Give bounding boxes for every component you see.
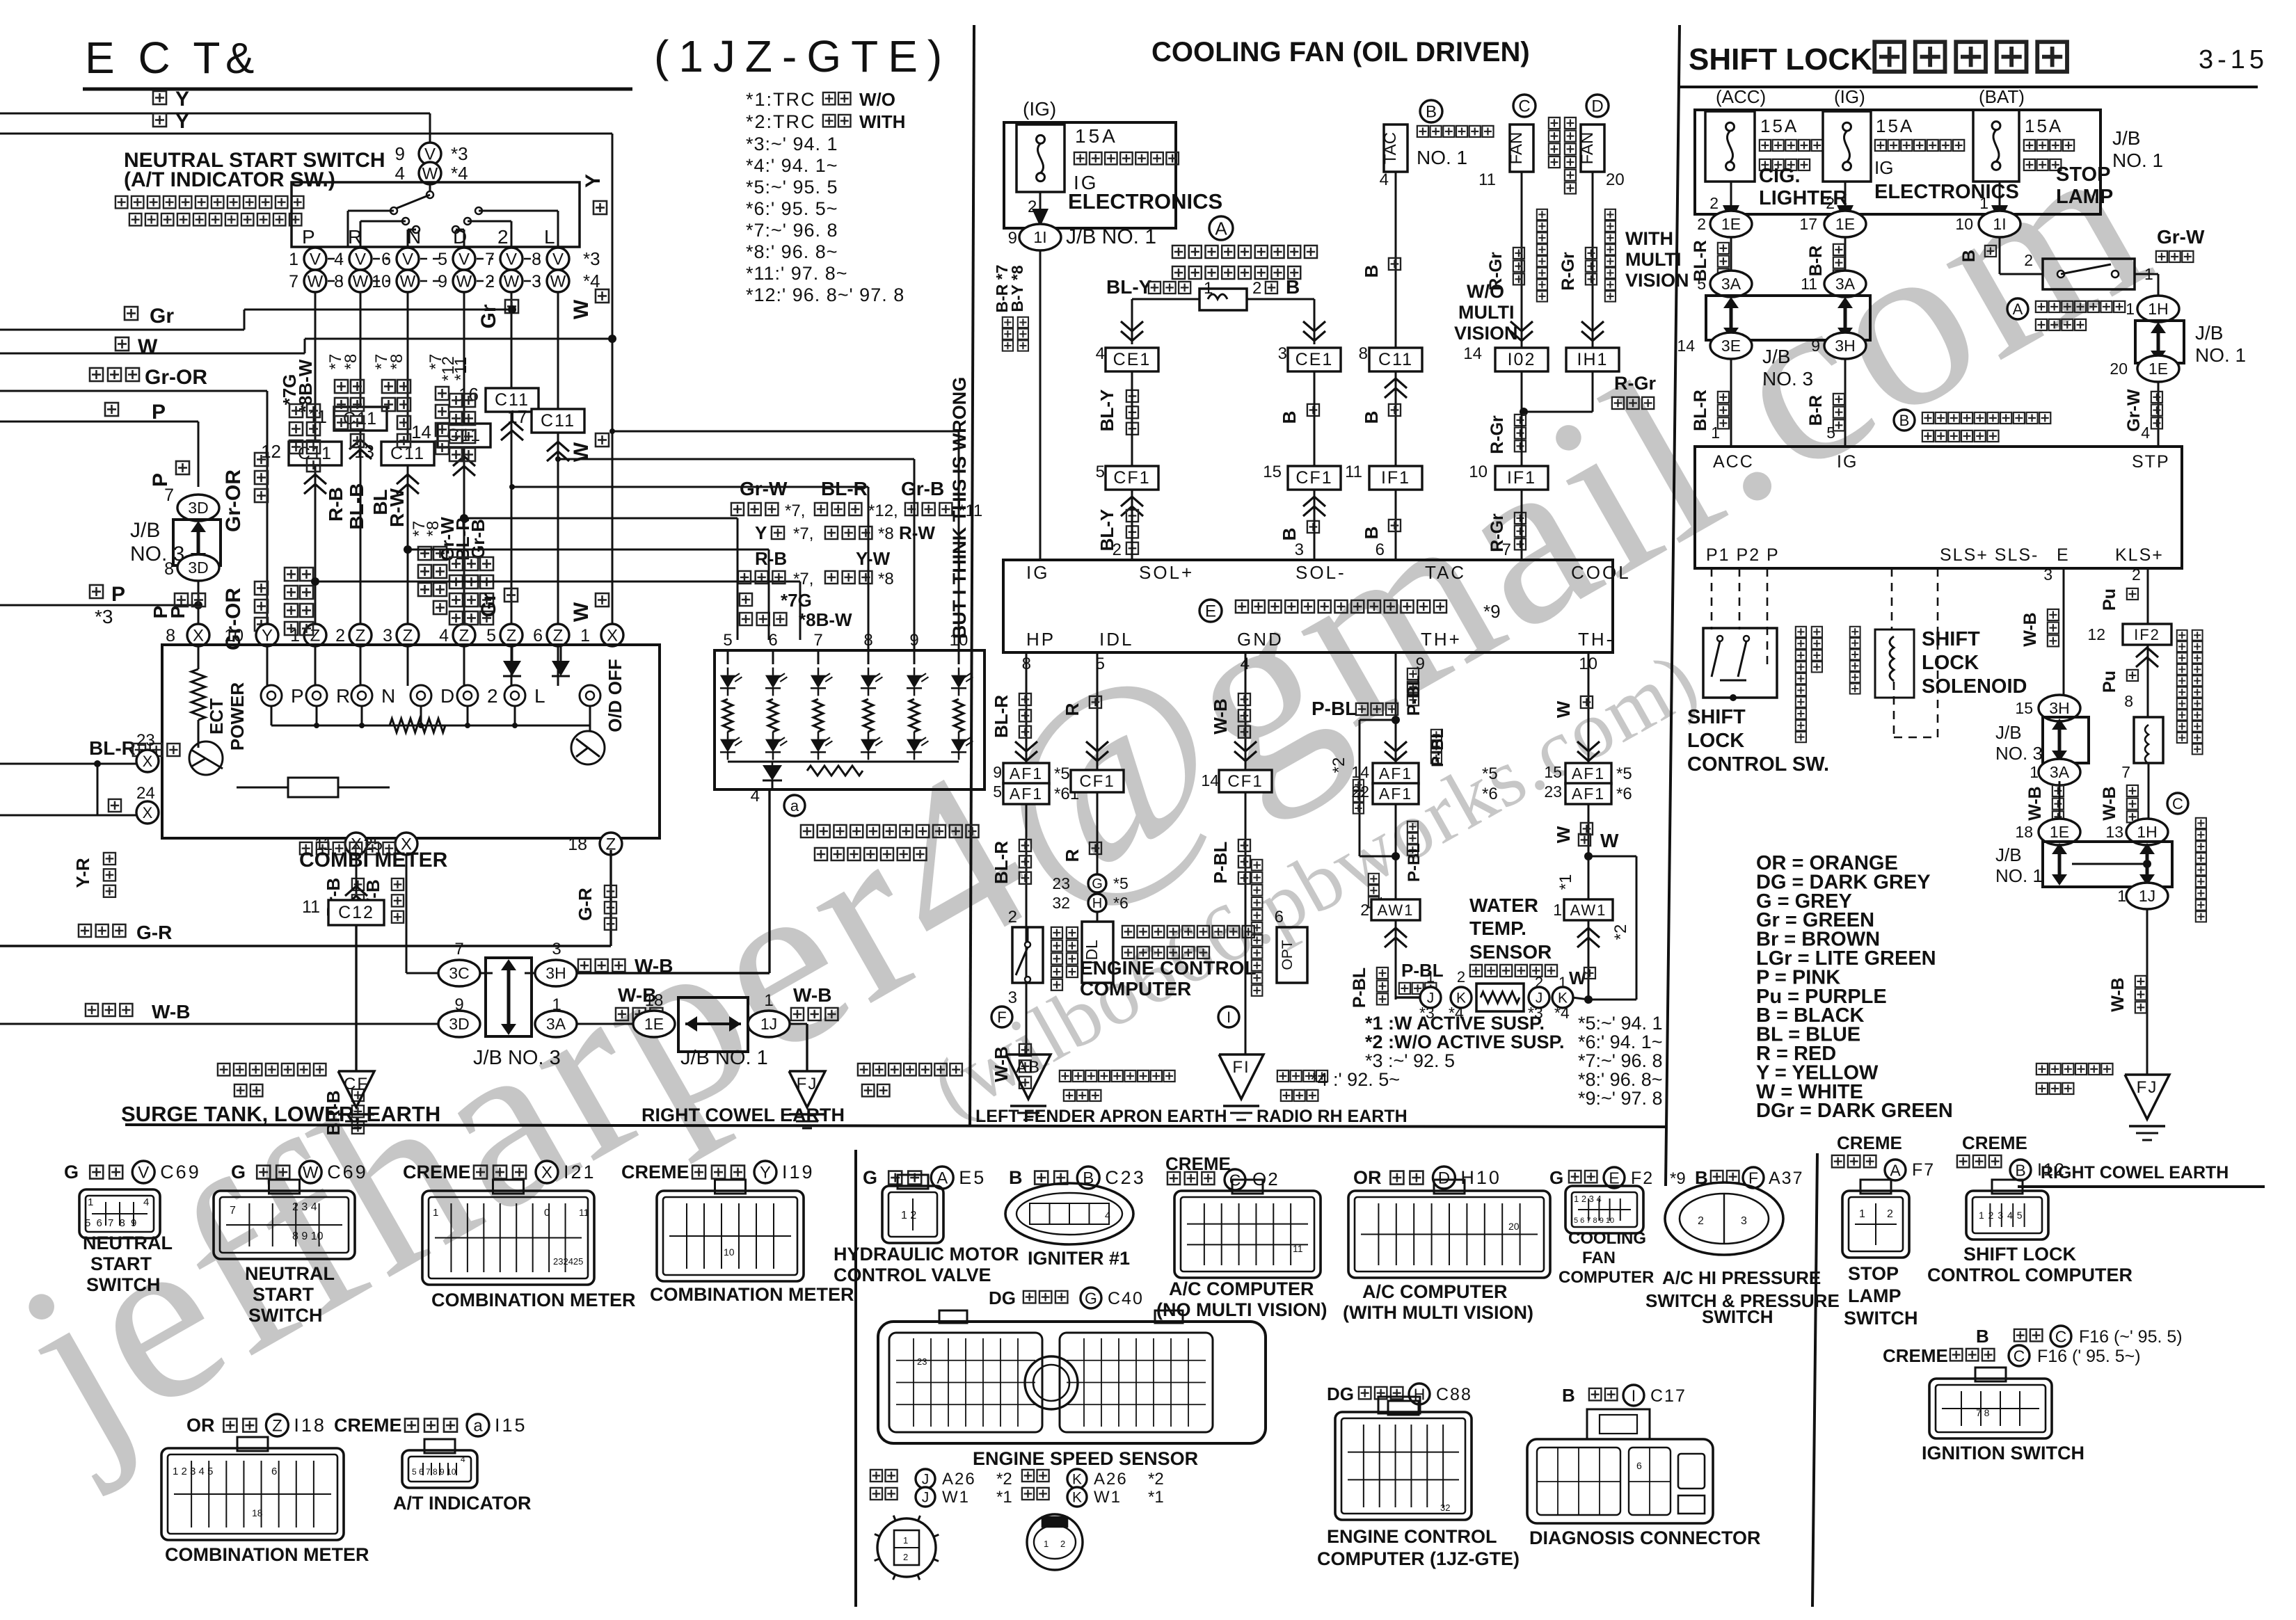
svg-text:C17: C17 (1650, 1386, 1687, 1406)
cooling fan computer box (1003, 560, 1613, 652)
svg-text:3C: 3C (449, 964, 469, 982)
svg-text:BL-R: BL-R (1691, 390, 1710, 431)
svg-text:4: 4 (395, 163, 405, 184)
svg-text:*11: *11 (452, 357, 470, 380)
svg-text:AW1: AW1 (1378, 901, 1414, 919)
svg-text:20: 20 (1508, 1221, 1520, 1232)
svg-text:F7: F7 (1912, 1160, 1935, 1180)
svg-text:SWITCH: SWITCH (248, 1305, 322, 1326)
svg-text:Y-R: Y-R (72, 858, 93, 888)
svg-text:CF: CF (344, 1075, 369, 1093)
svg-text:18: 18 (645, 991, 664, 1010)
wires down (1730, 238, 1732, 284)
svg-text:IG: IG (1837, 452, 1858, 472)
svg-text:CREME: CREME (1883, 1345, 1948, 1366)
svg-text:BL-R: BL-R (821, 478, 868, 499)
svg-text:8: 8 (166, 626, 175, 645)
svg-text:11: 11 (1801, 275, 1817, 293)
svg-text:2: 2 (1887, 1208, 1893, 1220)
svg-text:C69: C69 (327, 1162, 368, 1182)
svg-text:P-BL: P-BL (1312, 698, 1357, 719)
svg-text:WITH: WITH (1625, 228, 1673, 249)
svg-text:2: 2 (1709, 194, 1719, 212)
svg-text:B: B (1562, 1385, 1575, 1406)
svg-text:J/B: J/B (1762, 346, 1790, 367)
svg-text:IF1: IF1 (1507, 468, 1536, 488)
svg-text:V: V (402, 250, 413, 269)
svg-text:20: 20 (2110, 360, 2128, 378)
svg-text:*1: *1 (1148, 1488, 1164, 1507)
svg-text:1: 1 (1553, 901, 1562, 919)
water temp sensor (1396, 996, 1421, 998)
svg-text:Gr-W: Gr-W (2157, 226, 2205, 248)
svg-text:14: 14 (411, 422, 431, 442)
TH+ branch *2 (1392, 716, 1400, 724)
svg-text:J/B: J/B (1995, 722, 2022, 743)
svg-text:9: 9 (993, 763, 1002, 781)
svg-text:IF1: IF1 (1381, 468, 1410, 488)
svg-text:E C T: E C T (85, 33, 225, 83)
svg-text:(WITH MULTI VISION): (WITH MULTI VISION) (1343, 1302, 1533, 1323)
svg-text:A: A (2013, 300, 2023, 318)
svg-text:CE1: CE1 (1296, 350, 1334, 369)
svg-text:*8: *8 (878, 570, 894, 588)
svg-text:D: D (1438, 1169, 1450, 1188)
ignition switch jp label (2177, 630, 2187, 743)
svg-text:6: 6 (768, 631, 777, 650)
svg-text:F16 (~' 95. 5): F16 (~' 95. 5) (2079, 1327, 2183, 1347)
svg-text:*8:' 96. 8~: *8:' 96. 8~ (1578, 1069, 1663, 1090)
svg-text:CF1: CF1 (1079, 772, 1115, 791)
svg-text:*4 :' 92. 5~: *4 :' 92. 5~ (1310, 1069, 1400, 1090)
svg-text:3A: 3A (2050, 763, 2070, 781)
svg-text:2: 2 (1113, 540, 1122, 559)
svg-text:E: E (1609, 1169, 1619, 1187)
svg-text:32: 32 (1052, 894, 1070, 912)
svg-text:LEFT FENDER APRON EARTH: LEFT FENDER APRON EARTH (975, 1107, 1227, 1126)
fuse BAT stop lamp (1973, 110, 2019, 182)
bus W (115, 337, 129, 351)
svg-text:*2: *2 (1148, 1470, 1164, 1489)
svg-text:AW1: AW1 (1570, 901, 1607, 919)
svg-text:*6: *6 (1113, 894, 1129, 912)
svg-text:RIGHT COWEL EARTH: RIGHT COWEL EARTH (2041, 1163, 2229, 1182)
wires to computer (1730, 360, 1732, 447)
svg-text:COMBINATION METER: COMBINATION METER (650, 1284, 854, 1305)
svg-text:NO. 1: NO. 1 (1995, 865, 2043, 886)
svg-text:8: 8 (863, 631, 872, 650)
svg-text:1: 1 (1979, 194, 1988, 212)
svg-text:CREME: CREME (403, 1162, 471, 1182)
svg-text:E: E (2057, 545, 2068, 565)
row2 AT indicator connector (402, 1450, 477, 1488)
svg-text:*7:~' 96. 8: *7:~' 96. 8 (1578, 1050, 1663, 1071)
svg-text:MULTI: MULTI (1458, 302, 1514, 323)
wire Y down to switch (429, 113, 431, 143)
svg-text:Pu: Pu (2100, 588, 2119, 611)
svg-text:2: 2 (1252, 279, 1261, 298)
svg-text:*3: *3 (95, 606, 113, 627)
svg-text:6: 6 (533, 626, 543, 645)
svg-text:R: R (1062, 849, 1083, 862)
J/B No.1 (577, 1023, 633, 1025)
svg-text:A: A (1890, 1161, 1901, 1179)
svg-text:W-B: W-B (2100, 786, 2119, 820)
fuse IG electronics (1823, 111, 1871, 182)
svg-text:11: 11 (579, 1207, 589, 1218)
svg-text:4: 4 (2141, 424, 2150, 442)
svg-text:OPT: OPT (1279, 940, 1296, 970)
row2 combination meter connector (161, 1448, 344, 1540)
svg-text:7: 7 (289, 272, 298, 291)
svg-text:OR: OR (1353, 1167, 1382, 1188)
svg-text:R: R (336, 685, 350, 707)
svg-text:SWITCH: SWITCH (1844, 1308, 1918, 1329)
A/T indicator lamp box (715, 650, 984, 789)
svg-text:A37: A37 (1769, 1169, 1803, 1188)
pin 24 X (109, 799, 121, 812)
svg-text:*2: *2 (996, 1470, 1012, 1489)
svg-text:1: 1 (903, 1535, 908, 1546)
svg-text:Y: Y (760, 1164, 771, 1182)
svg-text:R-W: R-W (899, 522, 935, 543)
svg-text:SWITCH: SWITCH (86, 1274, 160, 1295)
svg-text:4: 4 (1105, 1210, 1110, 1221)
svg-text:*1: *1 (996, 1488, 1012, 1507)
J/B No.3 box right (1706, 296, 1870, 340)
svg-text:1I: 1I (1993, 215, 2006, 233)
svg-text:VISION: VISION (1625, 270, 1689, 291)
svg-text:SHIFT LOCK: SHIFT LOCK (1963, 1244, 2076, 1265)
FAN C and D (1513, 95, 1536, 117)
svg-text:15A: 15A (1876, 115, 1914, 136)
svg-text:*4: *4 (1554, 1004, 1570, 1022)
svg-text:CE1: CE1 (1113, 350, 1151, 369)
svg-text:8: 8 (2124, 692, 2133, 710)
svg-text:8: 8 (1359, 344, 1368, 363)
svg-text:3E: 3E (1721, 337, 1741, 355)
svg-text:*4: *4 (451, 163, 468, 184)
svg-text:G: G (1549, 1167, 1563, 1188)
svg-text:3D: 3D (188, 559, 208, 577)
svg-text:AB: AB (1016, 1058, 1041, 1077)
svg-text:SHIFT LOCK: SHIFT LOCK (1689, 42, 1872, 77)
svg-text:(BAT): (BAT) (1979, 86, 2025, 107)
svg-text:3-15: 3-15 (2199, 45, 2268, 74)
svg-text:*2 :W/O ACTIVE SUSP.: *2 :W/O ACTIVE SUSP. (1365, 1032, 1565, 1052)
svg-text:Gr-B: Gr-B (468, 519, 488, 559)
svg-text:1: 1 (2126, 300, 2135, 318)
svg-text:2: 2 (497, 226, 509, 248)
shift lock solenoid (1891, 568, 1893, 629)
svg-text:Gr-OR: Gr-OR (222, 470, 245, 532)
sensor sub labels (870, 1470, 898, 1482)
svg-text:L: L (534, 685, 545, 707)
svg-text:STOP: STOP (1848, 1263, 1899, 1284)
svg-text:18: 18 (568, 835, 587, 854)
lamp box label (801, 825, 979, 837)
svg-text:1: 1 (1426, 968, 1435, 986)
fuse ACC cig lighter (1705, 111, 1755, 182)
svg-text:IG: IG (1874, 157, 1893, 178)
svg-text:C40: C40 (1108, 1289, 1144, 1308)
svg-text:H: H (1092, 896, 1102, 911)
svg-text:5: 5 (1697, 275, 1706, 293)
svg-text:AF1: AF1 (1572, 785, 1605, 803)
svg-text:X: X (541, 1164, 552, 1182)
svg-text:P1 P2 P: P1 P2 P (1706, 545, 1780, 565)
svg-text:AF1: AF1 (1572, 764, 1605, 783)
svg-text:FAN: FAN (1507, 132, 1526, 165)
svg-text:R: R (1062, 703, 1083, 716)
svg-text:Z: Z (459, 627, 470, 645)
svg-text:23: 23 (917, 1356, 927, 1367)
svg-text:22: 22 (1351, 783, 1369, 801)
svg-text:*9: *9 (1670, 1169, 1686, 1188)
engine control computer label (1122, 926, 1254, 938)
svg-text:*7G: *7G (781, 590, 812, 611)
svg-text:COMPUTER: COMPUTER (1080, 978, 1191, 1000)
svg-text:10: 10 (1469, 463, 1488, 481)
svg-text:J/B: J/B (1995, 844, 2022, 865)
svg-text:2: 2 (1060, 1539, 1065, 1549)
svg-text:5: 5 (1826, 424, 1835, 442)
lamp box resistors (723, 699, 733, 732)
svg-text:NO. 1: NO. 1 (2195, 344, 2246, 366)
svg-text:O/D OFF: O/D OFF (605, 659, 625, 732)
dashed wires to control sw (1711, 568, 1713, 629)
svg-text:C: C (1518, 97, 1530, 116)
svg-text:4: 4 (751, 787, 760, 805)
svg-text:CONTROL COMPUTER: CONTROL COMPUTER (1927, 1265, 2132, 1285)
W-B bus (86, 1004, 132, 1016)
svg-text:*12:' 96. 8~' 97. 8: *12:' 96. 8~' 97. 8 (746, 284, 904, 305)
svg-text:W: W (1553, 826, 1574, 843)
svg-text:AF1: AF1 (1379, 785, 1412, 803)
svg-text:BL-B: BL-B (346, 483, 367, 530)
svg-text:NEUTRAL: NEUTRAL (83, 1233, 173, 1253)
radio rh earth (1219, 1054, 1263, 1099)
svg-text:R-B: R-B (755, 548, 787, 569)
svg-text:2: 2 (1457, 968, 1465, 986)
bottom section divider left (854, 1150, 857, 1607)
combi meter box (162, 645, 660, 838)
svg-text:LAMP: LAMP (2056, 186, 2113, 208)
svg-text:C69: C69 (160, 1162, 201, 1182)
title underline (83, 88, 632, 91)
svg-text:TAC: TAC (1425, 562, 1466, 583)
svg-text:W: W (456, 273, 472, 291)
svg-text:*8: *8 (878, 524, 894, 543)
svg-text:SHIFT: SHIFT (1687, 706, 1746, 728)
svg-text:LAMP: LAMP (1848, 1285, 1902, 1306)
svg-text:J/B NO. 1: J/B NO. 1 (680, 1047, 768, 1069)
svg-text:Z: Z (403, 627, 413, 645)
svg-text:I19: I19 (782, 1162, 815, 1182)
svg-text:4: 4 (143, 1196, 149, 1208)
svg-text:3: 3 (1741, 1215, 1747, 1227)
svg-text:1 2 3 4 5: 1 2 3 4 5 (173, 1466, 213, 1477)
svg-text:P: P (149, 473, 172, 487)
svg-text:W: W (1553, 700, 1574, 718)
stop lamp switch label (2007, 298, 2028, 319)
svg-text:K: K (1072, 1490, 1082, 1506)
svg-text:*7,: *7, (785, 502, 805, 520)
svg-text:1 2 3 4 5: 1 2 3 4 5 (1979, 1210, 2023, 1221)
svg-text:CONTROL SW.: CONTROL SW. (1687, 753, 1829, 776)
svg-text:*5:~' 94. 1: *5:~' 94. 1 (1578, 1013, 1663, 1034)
engine control computer connector (1335, 1412, 1472, 1520)
svg-text:W-B: W-B (2108, 977, 2128, 1011)
svg-text:R-Gr: R-Gr (1558, 252, 1578, 291)
svg-text:RADIO RH EARTH: RADIO RH EARTH (1257, 1107, 1408, 1126)
svg-text:W/O: W/O (1467, 281, 1504, 302)
svg-text:W: W (1600, 830, 1619, 851)
svg-text:P: P (167, 606, 189, 619)
svg-text:1: 1 (580, 626, 590, 645)
svg-text:4: 4 (461, 1454, 465, 1464)
svg-text:*1:TRC: *1:TRC (746, 89, 816, 110)
svg-text:5 6 7 8 9: 5 6 7 8 9 (85, 1217, 138, 1229)
svg-text:*9: *9 (1483, 601, 1501, 622)
svg-text:*5: *5 (1482, 764, 1498, 783)
svg-text:W: W (308, 273, 324, 291)
svg-text:*7,: *7, (793, 524, 813, 543)
svg-text:9: 9 (1008, 229, 1017, 248)
svg-text:W: W (504, 273, 520, 291)
svg-text:9: 9 (909, 631, 918, 650)
svg-text:HYDRAULIC MOTOR: HYDRAULIC MOTOR (834, 1244, 1019, 1265)
svg-text:*3: *3 (583, 248, 600, 269)
svg-text:B: B (1279, 528, 1300, 541)
svg-text:*8B-W: *8B-W (799, 609, 852, 630)
svg-text:B: B (1899, 412, 1910, 429)
connector AC computer no multivision (1174, 1191, 1321, 1278)
J/B No.1 fuse block box (1695, 110, 2100, 214)
svg-text:D: D (1591, 97, 1603, 116)
svg-text:TAC: TAC (1381, 132, 1400, 164)
svg-text:A: A (1215, 218, 1227, 239)
svg-text:15A: 15A (1760, 115, 1799, 136)
section divider ECT|COOLING FAN (970, 25, 974, 1127)
combi diodes (503, 661, 521, 676)
svg-text:KLS+: KLS+ (2115, 545, 2164, 565)
svg-text:CF1: CF1 (1227, 772, 1263, 791)
J/B No.1 box right small (2135, 321, 2184, 363)
svg-text:2: 2 (1697, 215, 1706, 233)
shift lock computer label (1894, 410, 1915, 431)
svg-text:HP: HP (1026, 629, 1055, 650)
svg-text:2: 2 (487, 685, 498, 707)
svg-text:W: W (570, 299, 593, 319)
svg-text:*5:~' 95. 5: *5:~' 95. 5 (746, 177, 838, 198)
svg-text:COOL: COOL (1571, 562, 1631, 583)
svg-text:*3 :~' 92. 5: *3 :~' 92. 5 (1365, 1050, 1455, 1071)
svg-text:23: 23 (136, 731, 155, 750)
svg-text:CREME: CREME (1962, 1132, 2027, 1153)
TH+ column (1395, 652, 1397, 1000)
svg-text:B: B (2015, 1161, 2025, 1179)
svg-text:*11:' 97. 8~: *11:' 97. 8~ (746, 263, 848, 284)
svg-text:Z: Z (356, 627, 366, 645)
svg-text:GND: GND (1237, 629, 1284, 650)
svg-text:18: 18 (2015, 823, 2033, 841)
neutral start switch box (429, 184, 431, 193)
shift lock control computer box (1695, 447, 2182, 568)
svg-text:G: G (1085, 1289, 1097, 1307)
svg-text:14: 14 (1463, 344, 1482, 363)
key interlock solenoid (2134, 717, 2163, 763)
svg-text:X: X (143, 753, 153, 770)
svg-text:W/O: W/O (859, 89, 895, 110)
svg-text:4: 4 (1096, 344, 1105, 363)
connector igniter (1005, 1183, 1133, 1244)
svg-text:18: 18 (252, 1507, 263, 1518)
wires down from switch pins (314, 292, 317, 635)
svg-text:C11: C11 (1378, 350, 1413, 369)
svg-text:CREME: CREME (621, 1162, 689, 1182)
svg-text:1J: 1J (760, 1015, 777, 1033)
svg-text:3: 3 (1295, 540, 1304, 559)
wire Gr col to lamp pin 8 (512, 486, 868, 488)
svg-text:*6: *6 (1616, 785, 1632, 803)
svg-text:W: W (570, 602, 593, 622)
svg-text:NO. 1: NO. 1 (1417, 147, 1467, 168)
svg-text:F: F (997, 1009, 1006, 1026)
svg-text:COMBI METER: COMBI METER (299, 849, 448, 872)
svg-text:R-W: R-W (386, 488, 408, 527)
svg-text:5 6 7 8 9 10: 5 6 7 8 9 10 (412, 1467, 456, 1477)
svg-text:BL-Y: BL-Y (1097, 390, 1117, 432)
svg-text:2 3 4: 2 3 4 (292, 1201, 317, 1213)
connector shift lock control computer (1966, 1191, 2048, 1240)
svg-text:F: F (1748, 1169, 1758, 1187)
svg-text:J: J (922, 1490, 930, 1506)
svg-text:3: 3 (2043, 566, 2052, 584)
svg-text:V: V (552, 250, 564, 269)
svg-text:P: P (111, 583, 125, 606)
svg-text:(1JZ-GTE): (1JZ-GTE) (654, 31, 952, 81)
svg-text:Z: Z (272, 1417, 282, 1436)
wire to FJ earth (2146, 910, 2148, 1075)
svg-text:1E: 1E (2050, 823, 2069, 841)
svg-text:a: a (473, 1417, 483, 1436)
svg-text:*2: *2 (1330, 757, 1348, 773)
svg-text:G: G (863, 1167, 877, 1188)
svg-text:C88: C88 (1436, 1385, 1472, 1404)
svg-text:24: 24 (136, 784, 155, 803)
svg-text:B: B (1361, 411, 1382, 424)
GND column (1245, 652, 1247, 1054)
svg-text:9: 9 (395, 143, 405, 164)
svg-text:10: 10 (1955, 215, 1973, 233)
svg-text:BL-R: BL-R (89, 737, 136, 759)
svg-text:IGNITION SWITCH: IGNITION SWITCH (1922, 1443, 2084, 1463)
svg-text:G-R: G-R (136, 922, 172, 943)
svg-text:*2:TRC: *2:TRC (746, 111, 816, 132)
svg-text:*5: *5 (1054, 764, 1070, 783)
svg-text:COOLING FAN (OIL DRIVEN): COOLING FAN (OIL DRIVEN) (1151, 37, 1530, 67)
svg-text:STOP: STOP (2056, 163, 2110, 186)
svg-text:DGr = DARK GREEN: DGr = DARK GREEN (1756, 1100, 1953, 1122)
svg-text:N: N (381, 685, 395, 707)
svg-text:11: 11 (1345, 463, 1362, 481)
svg-text:G: G (231, 1162, 246, 1182)
svg-text:FJ: FJ (797, 1075, 818, 1093)
TH- bypass *2 (1584, 852, 1593, 860)
TH- column (1588, 652, 1590, 1000)
svg-text:9: 9 (1416, 655, 1425, 673)
